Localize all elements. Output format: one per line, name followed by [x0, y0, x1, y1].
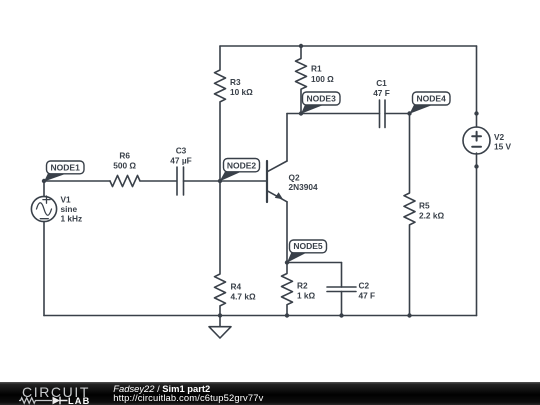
svg-text:C3: C3: [176, 146, 187, 156]
node NODE5 junction dot: [285, 260, 289, 264]
transistor Q2 base bar: [266, 161, 268, 202]
svg-text:NODE5: NODE5: [293, 241, 323, 251]
resistor R1: [296, 46, 307, 114]
wire NODE2 to Q2 base: [220, 180, 266, 182]
svg-text:V2: V2: [494, 132, 505, 142]
svg-text:1 kΩ: 1 kΩ: [297, 291, 316, 301]
svg-text:100 Ω: 100 Ω: [311, 74, 334, 84]
footer title text: [113, 383, 263, 403]
wire top rail: [220, 45, 477, 47]
svg-text:10 kΩ: 10 kΩ: [230, 87, 253, 97]
svg-text:C2: C2: [359, 281, 370, 291]
node junction dot R5 bottom: [407, 313, 411, 317]
node NODE2 junction dot: [218, 179, 222, 183]
ground: [209, 316, 231, 339]
resistor R2: [282, 263, 293, 316]
voltage source V2 minus: [472, 146, 481, 148]
resistor R5: [404, 114, 415, 316]
node V2 bottom terminal dot: [474, 164, 478, 168]
svg-text:R4: R4: [231, 282, 242, 292]
svg-text:4.7 kΩ: 4.7 kΩ: [231, 292, 256, 302]
node junction dot top rail R1: [299, 44, 303, 48]
svg-text:1 kHz: 1 kHz: [61, 214, 83, 224]
node label NODE3: [301, 92, 340, 114]
svg-text:http://circuitlab.com/c6tup52g: http://circuitlab.com/c6tup52grv77v: [113, 392, 263, 403]
wire C1 to NODE4: [385, 113, 410, 115]
transistor Q2 collector diagonal: [267, 161, 287, 172]
node junction dot R2 bottom: [285, 313, 289, 317]
wire V2 bottom lead: [476, 153, 478, 316]
svg-text:15 V: 15 V: [494, 142, 512, 152]
svg-text:NODE1: NODE1: [51, 162, 81, 172]
node junction dot C2 bottom: [339, 313, 343, 317]
wire V2 top lead: [476, 46, 478, 127]
wire C2 bottom lead: [341, 292, 343, 316]
svg-text:R1: R1: [311, 64, 322, 74]
resistor R4: [215, 181, 226, 316]
svg-text:47 F: 47 F: [359, 291, 376, 301]
node NODE1 junction dot: [42, 179, 46, 183]
svg-text:R2: R2: [297, 281, 308, 291]
svg-text:sine: sine: [61, 204, 78, 214]
voltage source V2 circle: [463, 127, 490, 154]
capacitor C1: [380, 100, 386, 128]
wire V1 bottom lead: [43, 222, 45, 316]
voltage source V2 plus: [472, 132, 481, 141]
voltage source V1 sine: [37, 203, 52, 216]
svg-text:47 F: 47 F: [373, 88, 390, 98]
wire NODE1 to R6: [44, 180, 110, 182]
node NODE4 junction dot: [407, 111, 411, 115]
footer bar: [0, 382, 540, 405]
wire Q2 collector riser: [286, 114, 288, 162]
svg-text:NODE4: NODE4: [417, 94, 447, 104]
svg-text:47 µF: 47 µF: [170, 156, 191, 166]
logo CircuitLab wordmark: [19, 384, 90, 405]
svg-text:Q2: Q2: [289, 173, 300, 183]
svg-text:R5: R5: [419, 201, 430, 211]
wire collector rail NODE3: [287, 113, 380, 115]
svg-text:C1: C1: [376, 78, 387, 88]
svg-text:NODE3: NODE3: [307, 94, 337, 104]
transistor Q2 emitter diagonal: [267, 191, 287, 202]
transistor Q2 emitter arrow: [275, 192, 283, 199]
node NODE3 junction dot: [299, 111, 303, 115]
svg-text:500 Ω: 500 Ω: [113, 161, 136, 171]
resistor R3: [215, 46, 226, 181]
wire Q2 emitter riser: [286, 202, 288, 263]
node label NODE4: [410, 92, 451, 114]
voltage source V1 plus: [43, 196, 50, 203]
node label NODE2: [220, 159, 260, 182]
node label NODE5: [287, 240, 327, 263]
svg-text:NODE2: NODE2: [227, 161, 257, 171]
wire C2 top lead: [341, 263, 343, 288]
wire bottom rail: [44, 315, 477, 317]
capacitor C3: [177, 167, 184, 195]
node V2 top terminal dot: [474, 111, 478, 115]
voltage source V1 minus: [40, 218, 48, 220]
resistor R6: [110, 175, 140, 186]
svg-text:V1: V1: [61, 195, 72, 205]
wire C3 to NODE2: [184, 180, 221, 182]
node ground junction dot: [218, 313, 222, 317]
svg-text:R3: R3: [230, 77, 241, 87]
svg-text:LAB: LAB: [68, 396, 90, 405]
voltage source V1 circle: [31, 196, 56, 221]
wire R6 to C3: [141, 180, 177, 182]
wire V1 top lead / node A: [43, 181, 45, 197]
capacitor C2: [327, 287, 356, 292]
svg-text:2.2 kΩ: 2.2 kΩ: [419, 211, 444, 221]
wire NODE5 to C2: [287, 262, 342, 264]
node label NODE1: [44, 161, 84, 182]
svg-text:2N3904: 2N3904: [289, 182, 318, 192]
svg-text:R6: R6: [119, 151, 130, 161]
